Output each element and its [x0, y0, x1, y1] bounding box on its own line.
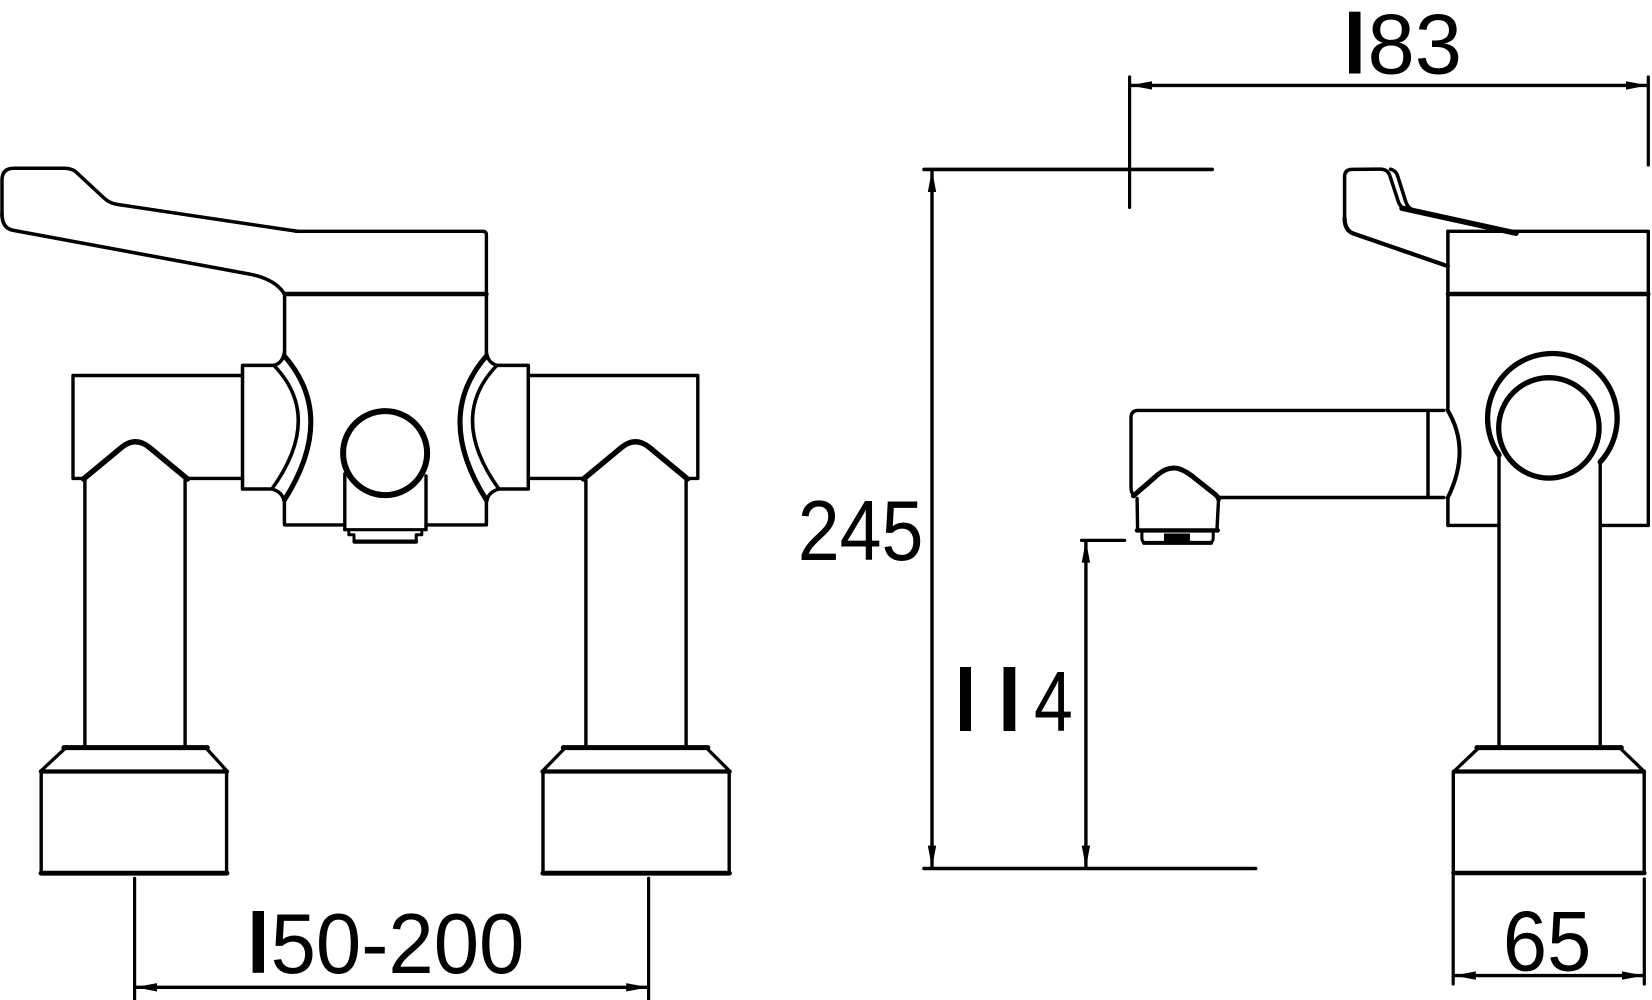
svg-text:65: 65: [1503, 895, 1591, 989]
svg-text:83: 83: [1368, 0, 1463, 93]
svg-text:4: 4: [1034, 656, 1073, 750]
svg-text:245: 245: [798, 484, 924, 579]
svg-text:50-200: 50-200: [271, 896, 525, 991]
